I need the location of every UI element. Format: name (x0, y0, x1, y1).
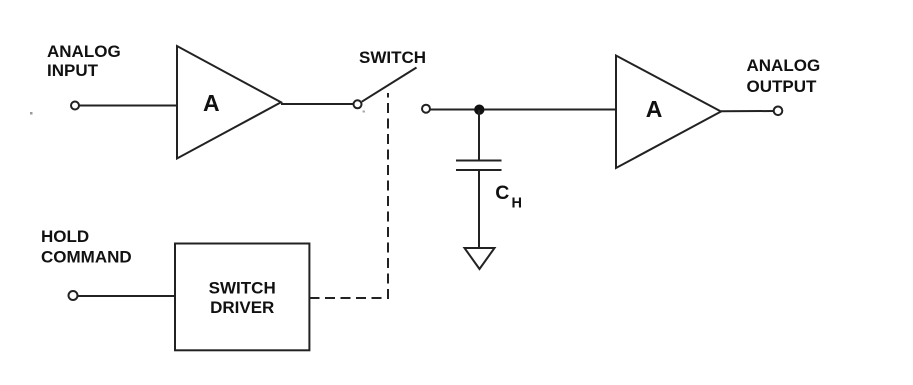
svg-text:COMMAND: COMMAND (41, 247, 132, 266)
svg-text:A: A (203, 90, 220, 116)
svg-text:SWITCH: SWITCH (359, 48, 426, 67)
svg-text:ANALOG: ANALOG (47, 42, 121, 61)
svg-text:HOLD: HOLD (41, 227, 89, 246)
svg-text:H: H (512, 196, 522, 212)
svg-text:OUTPUT: OUTPUT (747, 77, 818, 96)
svg-text:DRIVER: DRIVER (210, 298, 274, 317)
svg-text:ANALOG: ANALOG (747, 56, 821, 75)
svg-text:A: A (646, 96, 663, 122)
svg-text:C: C (495, 182, 509, 204)
svg-text:INPUT: INPUT (47, 61, 99, 80)
svg-text:SWITCH: SWITCH (209, 279, 276, 298)
